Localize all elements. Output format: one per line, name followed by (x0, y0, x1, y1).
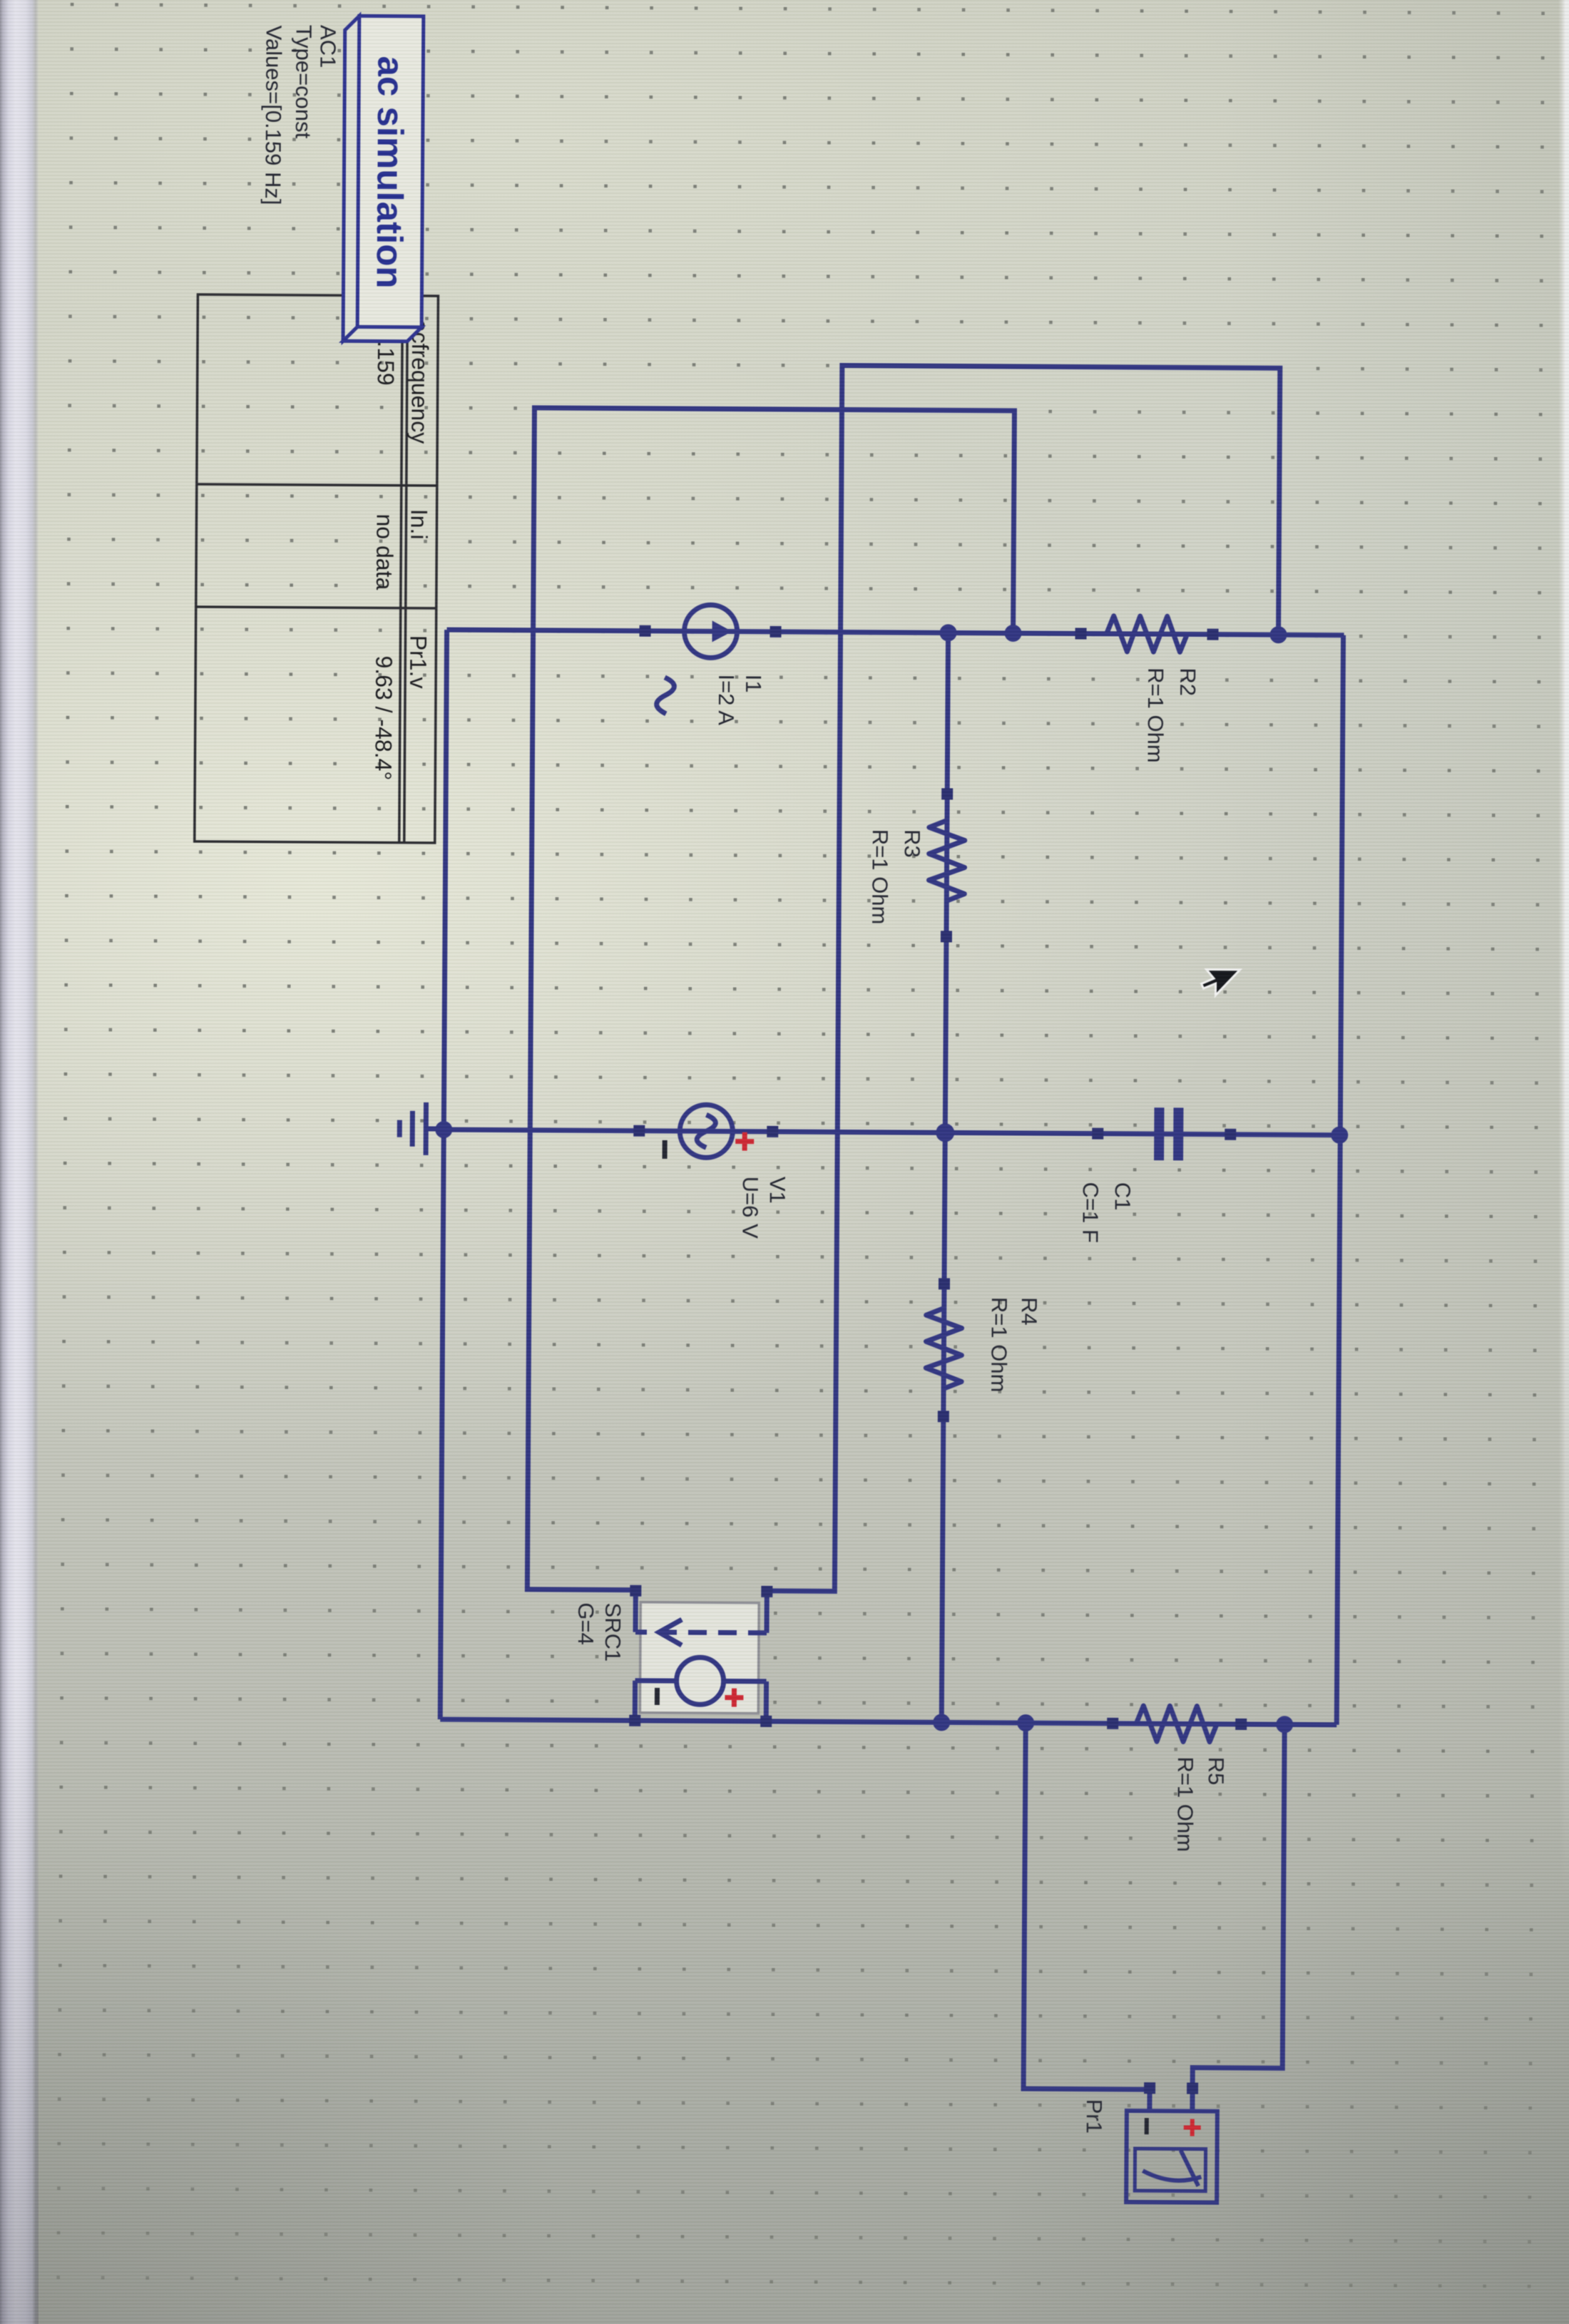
wire: left vertical net x=886 (I1/R2 branch) (447, 630, 1344, 635)
tabular result table (195, 295, 439, 843)
terminal V1 pin 1 (767, 1126, 778, 1137)
resistor R3 (horizontal, y=875, x 1112-1312) (929, 794, 965, 936)
resistor R4 (horizontal, y=875, x 1799-1985) (926, 1284, 962, 1416)
wire: right vertical net x=2414 (R5/SRC1 output) (440, 1719, 1337, 1725)
node junction: middle net / top wire (1331, 1127, 1348, 1144)
terminal R5 pin 2 (1107, 1718, 1118, 1729)
ac voltage source V1 (vertical, x=1587, center y 1210) (639, 1105, 772, 1158)
terminal R4 pin 1 (939, 1278, 950, 1289)
terminal Pr1 plus pin (1187, 2082, 1198, 2094)
terminal R2 pin 1 (1207, 629, 1218, 640)
node junction: left net / lower feedback loop (1004, 625, 1021, 642)
terminal R3 pin 2 (941, 931, 952, 942)
terminal SRC1 output pin 4 (629, 1715, 640, 1726)
SRC1 minus sign (655, 1688, 660, 1705)
wire: middle horizontal net y=875 (R3/R4 branch) (941, 633, 948, 1722)
wire: Pr1 plus feed (1192, 1724, 1284, 2089)
terminal I1 pin 2 (639, 625, 650, 637)
terminal R2 pin 2 (1075, 628, 1086, 639)
terminal SRC1 control pin 1 (761, 1586, 772, 1597)
SRC1 plus sign (725, 1689, 743, 1707)
VCCS SRC1 box (635, 1591, 767, 1721)
resistor R5 (vertical, x=2414, y 455-635) (1113, 1706, 1241, 1742)
output branch with circle (764, 1681, 769, 1721)
wire: upper feedback loop to SRC1 control top (767, 365, 1279, 1594)
V1 minus sign (663, 1140, 668, 1159)
terminal R3 pin 1 (941, 788, 953, 799)
node junction: left net / R3-R4 branch (939, 624, 956, 641)
ground symbol at (1586,1578) (399, 1102, 444, 1155)
node junction: right net / Pr1 plus wire (1276, 1716, 1293, 1733)
terminal C1 pin 2 (1092, 1128, 1103, 1140)
mouse cursor (1201, 970, 1240, 995)
terminal Pr1 minus pin (1144, 2082, 1155, 2094)
Pr1 plus sign (1184, 2119, 1201, 2136)
capacitor C1 (vertical, x=1587, plates y 546-584) (1098, 1107, 1230, 1161)
terminal V1 pin 2 (633, 1125, 645, 1137)
resistor R2 (vertical, x=886, y 504-689) (1080, 616, 1212, 652)
Pr1 minus sign (1145, 2118, 1149, 2134)
terminal R4 pin 2 (938, 1411, 949, 1422)
ac current source I1 (vertical, x=886, center y 1208, arrow up) (645, 605, 775, 658)
node junction: right net / Pr1 minus wire (1017, 1714, 1034, 1731)
terminal R5 pin 1 (1235, 1719, 1247, 1730)
wire: lower feedback loop to SRC1 control bottom (527, 408, 1014, 1592)
terminal I1 pin 1 (770, 626, 781, 638)
terminal C1 pin 1 (1225, 1129, 1236, 1140)
V1 plus sign (735, 1132, 754, 1151)
node junction: right net / R3-R4 branch (933, 1714, 950, 1731)
node junction: ground node (435, 1121, 452, 1138)
terminal SRC1 output pin 3 (760, 1716, 772, 1727)
wire: top horizontal net y=321 (1337, 635, 1343, 1725)
wire: Pr1 terminal stubs (1190, 2089, 1195, 2111)
wire: main bottom horizontal net y=1578 (440, 630, 446, 1719)
wire: Pr1 minus feed (1023, 1723, 1152, 2089)
terminal SRC1 control pin 2 (630, 1585, 641, 1597)
voltage probe Pr1 (1126, 2111, 1217, 2203)
control dashed branch (764, 1592, 769, 1633)
node junction: middle net / R3-R4 branch (936, 1123, 954, 1142)
ac simulation block (343, 16, 424, 342)
wire: middle vertical net x=1587 (V1/C1 branch) (444, 1130, 1340, 1135)
I1 ac squiggle (657, 677, 675, 714)
node junction: left net / upper feedback loop (1269, 626, 1287, 643)
